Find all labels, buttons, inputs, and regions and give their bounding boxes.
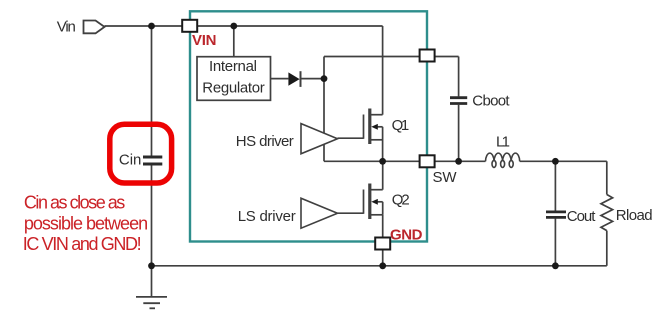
op-amp LS driver: [301, 198, 338, 228]
node diode output junction: [321, 75, 328, 82]
wire Cin branch upper: [151, 26, 153, 156]
pin VIN square: [182, 20, 197, 32]
wire internal regulator input: [233, 26, 235, 57]
label Cboot: [472, 93, 510, 110]
svg-text:Internal: Internal: [209, 58, 257, 75]
capacitor Cboot: [450, 98, 467, 104]
wire Cout bottom: [554, 219, 556, 266]
label HS driver: [236, 133, 294, 150]
svg-text:IC VIN and GND!: IC VIN and GND!: [23, 234, 142, 254]
svg-text:Rload: Rload: [616, 207, 653, 224]
svg-text:LS driver: LS driver: [238, 208, 296, 225]
pin GND square: [375, 238, 390, 250]
IC boundary (teal box): [190, 11, 427, 241]
wire regulator to diode: [271, 78, 289, 80]
transistor Q1: [364, 109, 383, 162]
svg-text:GND: GND: [390, 227, 423, 244]
label LS driver: [238, 208, 296, 225]
node Cboot/SW junction: [455, 158, 462, 165]
capacitor Cout: [546, 212, 566, 218]
svg-text:Cin as close as: Cin as close as: [24, 193, 125, 213]
svg-text:possible between: possible between: [24, 214, 148, 234]
svg-text:Regulator: Regulator: [202, 79, 264, 96]
node GND pin rail junction: [379, 262, 386, 269]
wire boot left vertical: [323, 57, 325, 162]
svg-text:Cout: Cout: [567, 208, 596, 225]
internal regulator U1: [197, 57, 271, 101]
svg-text:Cin: Cin: [119, 151, 141, 168]
label L1: [496, 133, 510, 150]
label VIN pin name: [192, 32, 217, 49]
node SW junction at Q1 source: [379, 158, 386, 165]
svg-text:Cboot: Cboot: [472, 93, 510, 110]
wire Cboot bottom: [458, 105, 460, 162]
svg-text:HS driver: HS driver: [236, 133, 294, 150]
note Cin placement annotation: [23, 193, 148, 255]
wire Rload top: [606, 161, 608, 194]
wire GND pin vertical: [382, 215, 384, 266]
inductor L1: [486, 153, 520, 167]
label Rload: [616, 207, 653, 224]
wire ground stub: [151, 266, 153, 297]
svg-text:Vin: Vin: [57, 18, 76, 35]
pin SW square: [420, 155, 435, 167]
red highlight around Cin: [110, 124, 172, 183]
ground: [136, 297, 167, 308]
wire bottom ground rail: [152, 265, 607, 267]
label Cout: [567, 208, 596, 225]
svg-text:VIN: VIN: [192, 32, 217, 49]
wire Rload bottom: [606, 231, 608, 266]
transistor Q2: [364, 161, 383, 219]
svg-text:Q2: Q2: [392, 192, 410, 209]
svg-text:Q1: Q1: [392, 117, 410, 134]
wire SW rail: [324, 160, 486, 162]
wire Vin rail (Vin tag to Q1 drain corner): [105, 25, 383, 27]
label GND pin name: [390, 227, 423, 244]
wire boot rail horizontal: [324, 56, 459, 58]
resistor Rload: [601, 195, 613, 231]
node Cout rail junction: [552, 262, 559, 269]
svg-text:SW: SW: [433, 169, 458, 186]
wire Cout top: [554, 161, 556, 210]
node regulator input junction: [230, 23, 237, 30]
node ground rail left junction: [148, 262, 155, 269]
diode D1: [288, 71, 300, 87]
label Q1: [392, 117, 410, 134]
wire diode to boot rail: [301, 78, 325, 80]
label Vin: [57, 18, 76, 35]
label SW pin name: [433, 169, 458, 186]
capacitor Cin: [143, 157, 162, 164]
Vin port connector: [84, 21, 105, 34]
wire HS driver to Q1 gate: [338, 137, 364, 139]
wire Cin branch lower: [151, 166, 153, 266]
op-amp HS driver: [301, 124, 338, 154]
wire Cboot top: [458, 57, 460, 97]
wire LS driver to Q2 gate: [338, 212, 364, 214]
node Vin/Cin junction: [148, 23, 155, 30]
wire L1 to output node: [520, 160, 607, 162]
svg-text:L1: L1: [496, 133, 510, 150]
wire Q1 drain vertical: [382, 26, 384, 115]
label Internal Regulator: [202, 58, 264, 96]
label Cin: [119, 151, 141, 168]
pin BOOT square: [420, 50, 435, 62]
label Q2: [392, 192, 410, 209]
node output node junction: [552, 158, 559, 165]
